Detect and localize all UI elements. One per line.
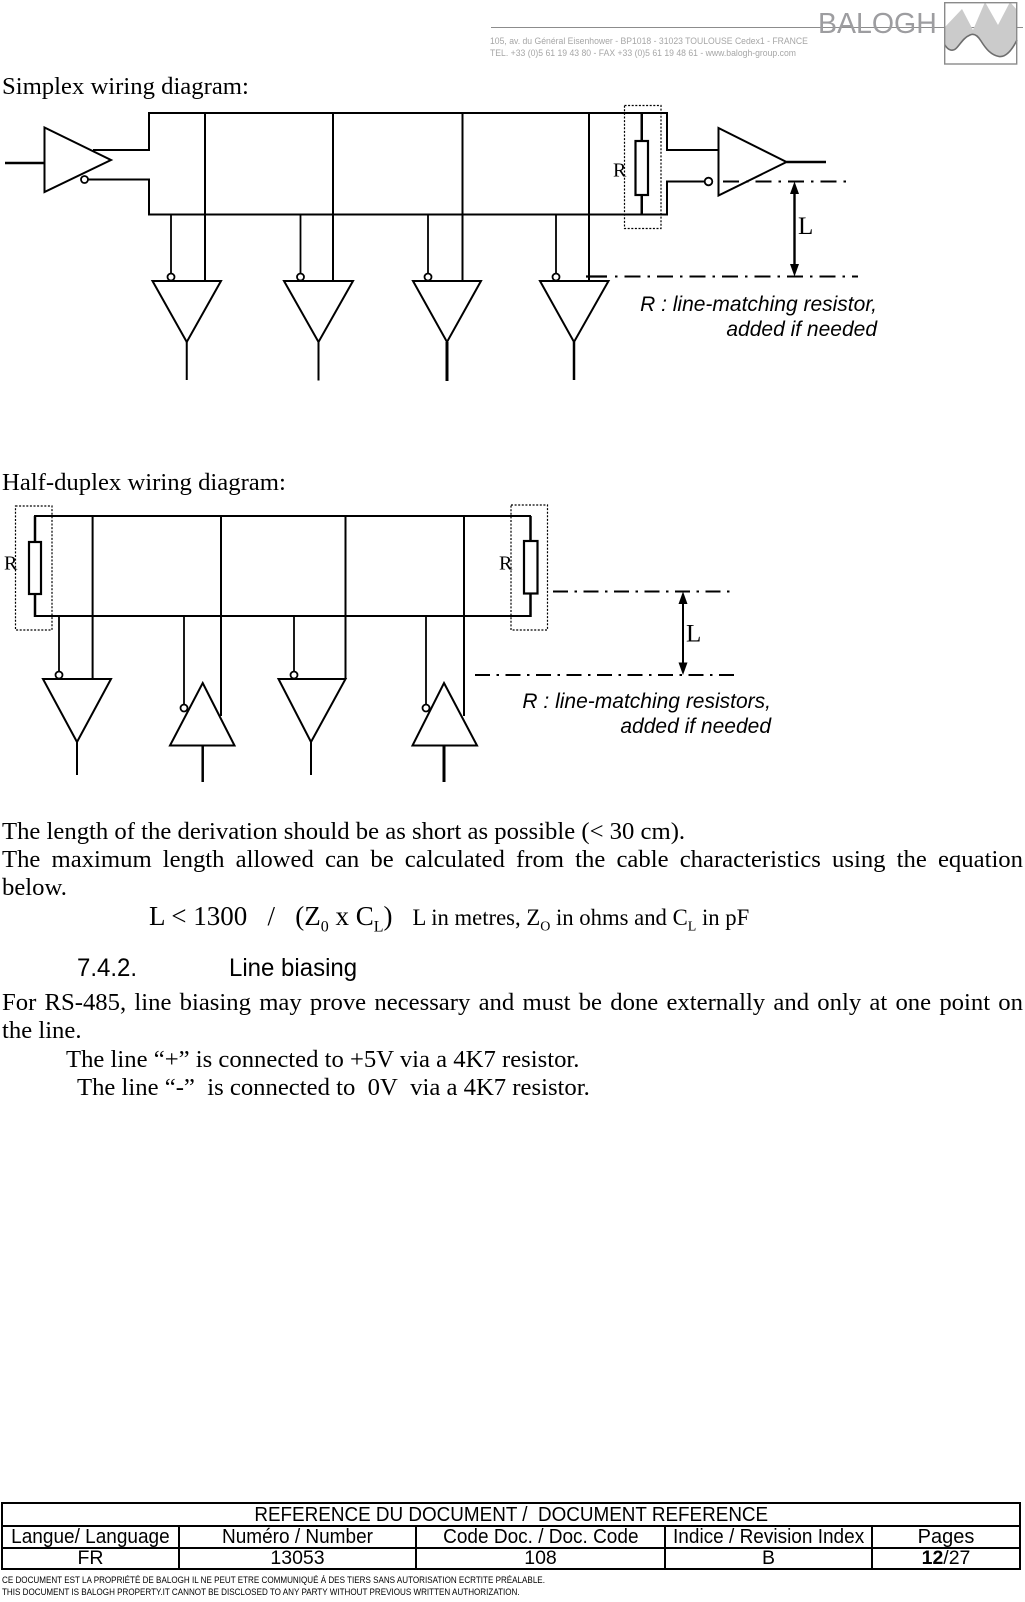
wire tap 4 (588, 113, 590, 281)
wire bus line + (148, 113, 719, 150)
inverter bubble receiver 6 (705, 178, 713, 186)
wire stub transceiver 4 (425, 616, 427, 705)
svg-text:R: R (499, 553, 513, 575)
wire output receiver 6 (787, 161, 827, 164)
inverter bubble T2 (181, 705, 188, 712)
receiver U2 (153, 281, 222, 342)
wire output receiver 2 (318, 342, 320, 381)
driver T2 (170, 683, 235, 746)
annotation half-duplex (400, 690, 771, 739)
wire input T2 (201, 746, 204, 783)
driver U1 (45, 128, 112, 193)
cable axis upper dash-dot (553, 591, 731, 593)
wire bus line - (148, 182, 705, 215)
wire stub transceiver 2 (183, 616, 185, 705)
wire stub receiver 4 (555, 214, 557, 274)
svg-text:R: R (4, 553, 18, 575)
dashed box around resistor R2 (511, 505, 548, 630)
dashed box around resistor R (625, 106, 662, 229)
resistor R (636, 141, 649, 195)
wire resistor R2 top lead (529, 516, 532, 542)
inverter bubble T3 (291, 672, 298, 679)
resistor R1 (29, 542, 41, 594)
wire stub receiver 1 (170, 214, 172, 274)
wire output receiver 3 (446, 342, 449, 381)
wire driver non-inverting output (93, 149, 150, 151)
cable axis upper dash-dot (723, 181, 848, 183)
wire resistor R1 bottom lead (34, 593, 37, 617)
wire driver input (5, 162, 45, 165)
wire tap 2 (332, 113, 334, 281)
wire output T3 (310, 742, 312, 775)
dashed box around resistor R1 (16, 506, 53, 630)
wire tap 1 (204, 113, 206, 281)
dimension arrow L (682, 598, 684, 668)
wire output T1 (76, 742, 78, 775)
receiver T1 (43, 679, 111, 742)
wire tap 3 (462, 113, 464, 281)
wire resistor top lead (641, 113, 644, 142)
annotation simplex (500, 293, 877, 342)
wire stub transceiver 3 (293, 616, 295, 672)
wire output receiver 4 (573, 342, 576, 380)
wire stub receiver 2 (300, 214, 302, 274)
inverter bubble receiver 1 (168, 274, 175, 281)
inverter bubble on driver (81, 176, 88, 183)
wire resistor R1 top lead (34, 516, 37, 543)
receiver U6 (719, 128, 787, 196)
dimension arrow L (793, 189, 795, 269)
svg-text:L: L (686, 621, 701, 648)
wire tap 3 (345, 516, 347, 679)
cable axis lower dash-dot (475, 674, 740, 676)
resistor R2 (524, 541, 538, 594)
wire bus line + (34, 515, 531, 517)
receiver U3 (284, 281, 353, 342)
wire tap 2 (220, 516, 222, 716)
wire tap 1 (92, 516, 94, 679)
inverter bubble receiver 2 (297, 274, 304, 281)
inverter bubble T1 (56, 672, 63, 679)
receiver T3 (279, 679, 346, 742)
driver T4 (413, 683, 478, 746)
receiver U5 (540, 281, 609, 342)
receiver U4 (413, 281, 481, 342)
svg-text:R: R (613, 160, 627, 182)
wire output receiver 1 (186, 342, 188, 380)
wire bus left edge (148, 113, 150, 215)
wire stub receiver 3 (427, 214, 429, 274)
wire bus line - (34, 615, 531, 617)
wire resistor R2 bottom lead (529, 593, 532, 617)
inverter bubble receiver 3 (425, 274, 432, 281)
heading 7.4.2 (77, 956, 137, 981)
cable axis lower dash-dot (586, 275, 607, 277)
wire stub transceiver 1 (58, 616, 60, 672)
wire resistor bottom lead (641, 194, 644, 215)
inverter bubble T4 (423, 705, 430, 712)
wire input T4 (443, 746, 446, 783)
wire tap 4 (463, 516, 465, 716)
svg-text:L: L (798, 213, 813, 240)
inverter bubble receiver 4 (553, 274, 560, 281)
wire driver inverting output (88, 179, 150, 181)
